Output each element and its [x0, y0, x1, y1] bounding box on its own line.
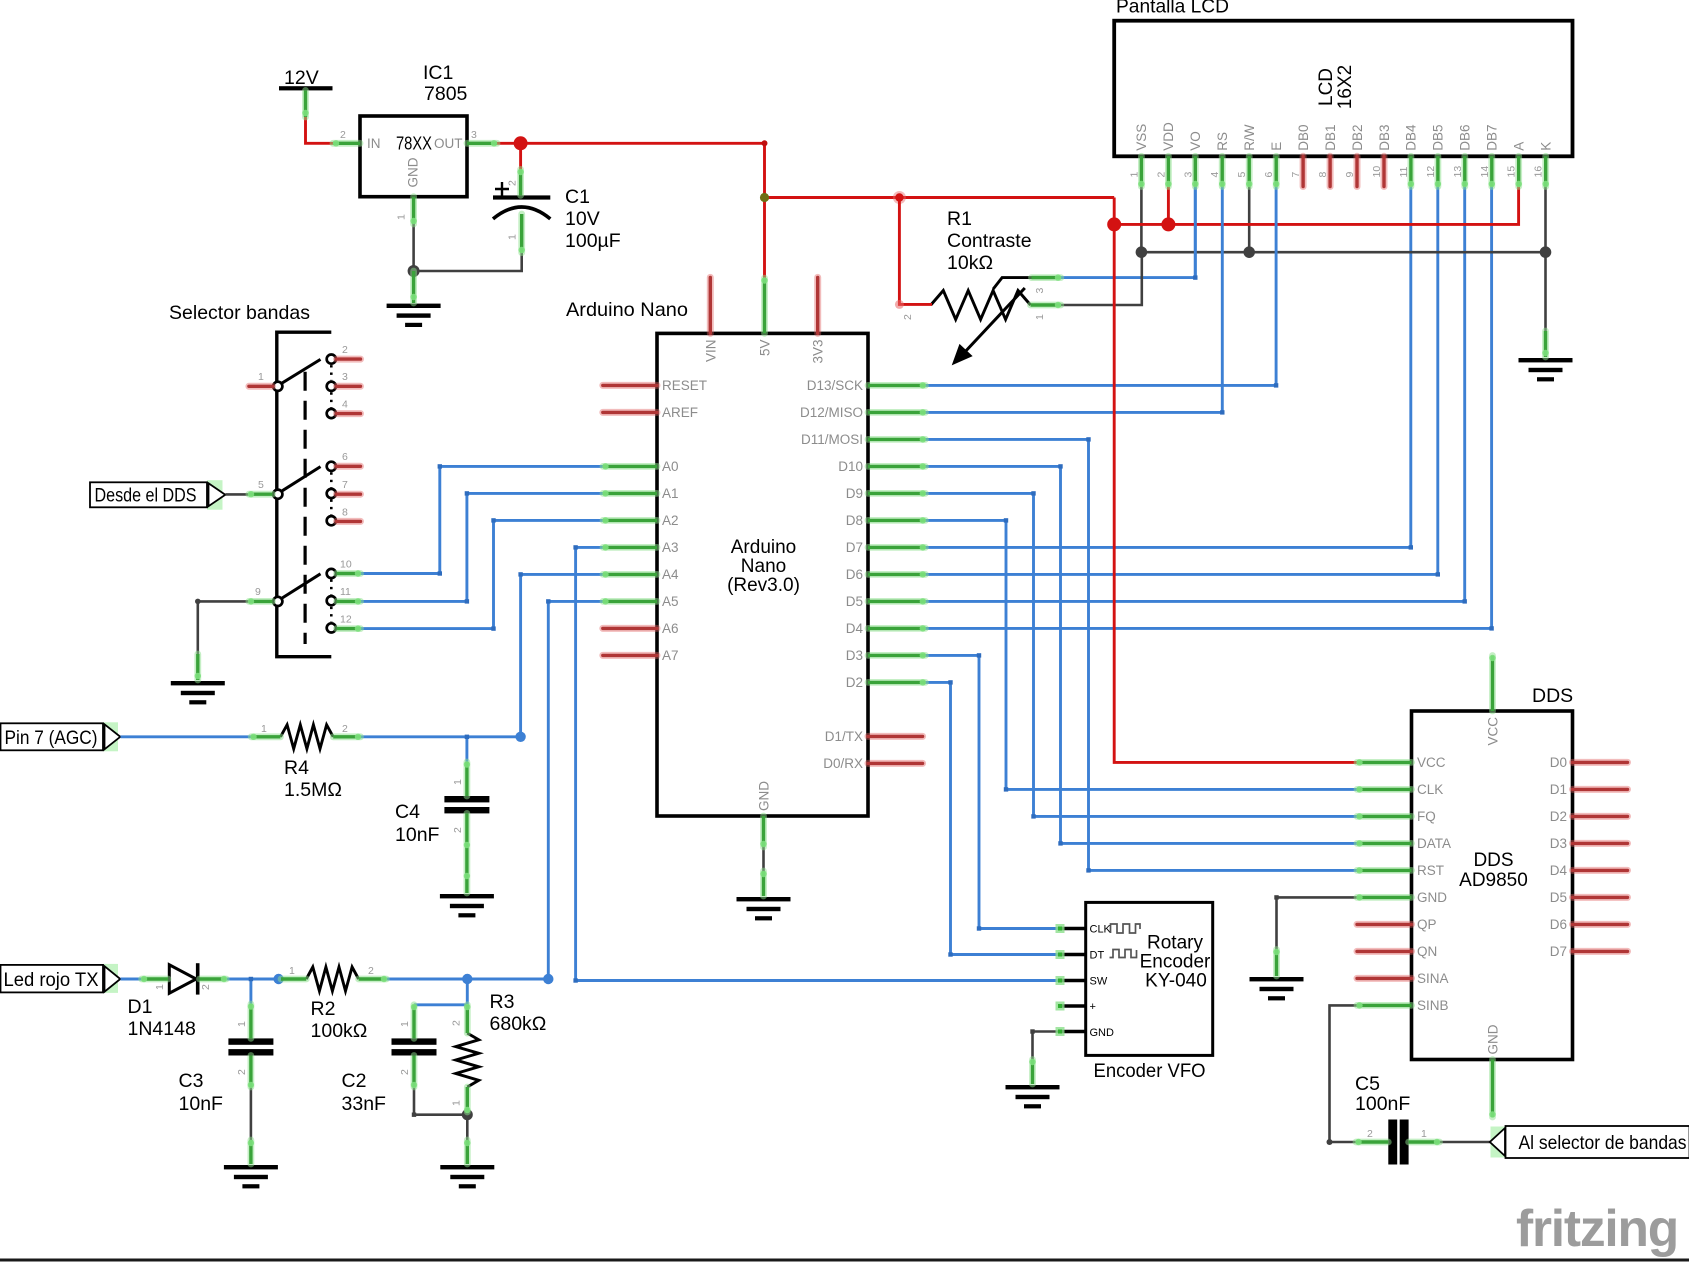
svg-text:K: K	[1539, 142, 1554, 151]
io label Pin 7 (AGC)	[1, 722, 121, 751]
pin end markers	[141, 110, 1549, 1146]
svg-text:12: 12	[340, 614, 352, 626]
wire R4 to node A4	[361, 735, 521, 738]
svg-text:GND: GND	[757, 781, 772, 811]
svg-text:GND: GND	[1417, 890, 1447, 905]
wire 5V drop to Arduino 5V pin	[763, 198, 766, 279]
svg-text:R/W: R/W	[1242, 124, 1257, 151]
junction dot R4/C4/A4	[515, 732, 525, 742]
svg-text:2: 2	[236, 1069, 248, 1075]
svg-text:D1: D1	[1550, 782, 1567, 797]
svg-text:IC1: IC1	[423, 62, 453, 84]
svg-text:D1: D1	[128, 996, 153, 1018]
svg-text:DATA: DATA	[1417, 836, 1451, 851]
svg-text:D11/MOSI: D11/MOSI	[801, 432, 863, 447]
wire R1 pin1 to GND bus	[1061, 252, 1142, 305]
wire selector pin10 to A0	[361, 466, 604, 573]
junction GND node	[408, 265, 420, 277]
wire C5 to Al selector	[1440, 1141, 1493, 1144]
wire D8 to DDS CLK	[925, 520, 1357, 789]
svg-text:Selector bandas: Selector bandas	[169, 302, 310, 324]
svg-text:A2: A2	[662, 513, 679, 528]
svg-text:2: 2	[452, 827, 464, 833]
wire D5 to LCD DB6	[925, 186, 1464, 601]
regulator IC1 7805	[340, 62, 477, 220]
capacitor C3 10nF	[179, 1021, 274, 1115]
svg-text:2: 2	[399, 1069, 411, 1075]
ground C3	[224, 1165, 278, 1188]
svg-text:C5: C5	[1355, 1073, 1380, 1095]
ground R3/C2	[440, 1165, 494, 1188]
wire LCD K to ground	[1544, 186, 1547, 332]
wire LedTX to D1	[121, 978, 144, 981]
svg-text:RST: RST	[1417, 863, 1444, 878]
svg-text:D4: D4	[1550, 863, 1568, 878]
wire 5V bus LCD	[1114, 186, 1518, 224]
svg-text:QP: QP	[1417, 917, 1437, 932]
svg-text:Arduino Nano: Arduino Nano	[566, 299, 688, 321]
rotary switch Selector bandas	[169, 302, 352, 657]
wire IC1 OUT to 5V rail	[497, 143, 765, 197]
svg-text:GND: GND	[406, 157, 421, 187]
ground Arduino	[737, 897, 791, 920]
svg-text:R2: R2	[311, 998, 336, 1020]
svg-text:D8: D8	[846, 513, 863, 528]
junction R1 branch	[893, 191, 906, 204]
svg-text:D2: D2	[846, 675, 863, 690]
svg-text:DB6: DB6	[1458, 125, 1473, 151]
svg-text:D12/MISO: D12/MISO	[800, 405, 863, 420]
wire pole 9 to ground	[198, 601, 273, 655]
svg-text:3: 3	[1034, 288, 1046, 294]
svg-text:8: 8	[342, 507, 348, 519]
svg-text:Al selector de bandas: Al selector de bandas	[1519, 1132, 1687, 1154]
wire LCD R/W to GND bus	[1248, 186, 1251, 252]
display Pantalla LCD 16x2	[1114, 0, 1572, 178]
svg-text:100nF: 100nF	[1355, 1093, 1410, 1115]
svg-text:2: 2	[342, 344, 348, 356]
wire C1 to GND node	[414, 253, 522, 271]
wire selector pin11 to A1	[361, 493, 604, 601]
svg-text:Contraste: Contraste	[947, 230, 1032, 252]
rotary encoder KY-040	[1059, 902, 1213, 1082]
wire LCD VSS to GND bus	[1140, 186, 1143, 252]
svg-text:DT: DT	[1090, 950, 1105, 962]
wire LCD E down	[1275, 186, 1278, 385]
frame bottom edge	[0, 1259, 1689, 1262]
wire node down to R3/C2	[414, 979, 467, 1005]
wire down to C3	[249, 979, 252, 1005]
svg-text:10V: 10V	[565, 208, 600, 230]
svg-text:D5: D5	[846, 594, 863, 609]
wire D2 to encoder DT	[925, 682, 1059, 954]
svg-text:1: 1	[399, 1021, 411, 1027]
svg-text:3: 3	[342, 371, 348, 383]
capacitor C2 33nF	[342, 1021, 437, 1115]
svg-text:SW: SW	[1090, 976, 1108, 988]
svg-text:DDS: DDS	[1473, 850, 1513, 871]
io label Al selector de bandas	[1490, 1126, 1689, 1158]
svg-text:33nF: 33nF	[342, 1093, 387, 1115]
svg-text:VDD: VDD	[1161, 122, 1176, 151]
ground C4	[440, 894, 494, 917]
wire DDS GND to ground	[1277, 897, 1358, 950]
svg-text:D3: D3	[846, 648, 863, 663]
junction dots GND bus	[1136, 246, 1148, 258]
svg-text:AD9850: AD9850	[1459, 870, 1528, 891]
wire node to A4	[521, 574, 603, 736]
svg-text:DB1: DB1	[1323, 125, 1338, 151]
wire LCD VO down	[1194, 186, 1197, 278]
svg-text:10: 10	[340, 559, 352, 571]
wire encoder GND to ground	[1033, 1032, 1060, 1061]
svg-text:100µF: 100µF	[565, 230, 621, 252]
wire D12/MISO to LCD RS	[925, 411, 1222, 414]
svg-text:1N4148: 1N4148	[128, 1018, 196, 1040]
svg-text:DB5: DB5	[1431, 125, 1446, 151]
svg-text:3: 3	[471, 129, 477, 141]
svg-text:2: 2	[200, 984, 212, 990]
wire C2 to R3 bottom	[414, 1087, 464, 1115]
junction 5V node	[760, 193, 769, 202]
svg-text:C1: C1	[565, 186, 590, 208]
svg-text:6: 6	[342, 451, 348, 463]
wire C1 pin2	[519, 143, 522, 170]
wire Desde el DDS to pole 5	[226, 493, 251, 496]
svg-text:A3: A3	[662, 540, 679, 555]
ground DDS	[1250, 977, 1304, 1000]
svg-text:DB4: DB4	[1404, 124, 1419, 151]
svg-text:2: 2	[342, 723, 348, 735]
svg-text:D5: D5	[1550, 890, 1567, 905]
wire GND bus	[1141, 251, 1545, 254]
svg-text:11: 11	[340, 586, 351, 598]
svg-text:LCD: LCD	[1316, 68, 1337, 106]
svg-text:C4: C4	[395, 801, 420, 823]
svg-text:3V3: 3V3	[811, 340, 826, 364]
svg-text:GND: GND	[1486, 1024, 1501, 1054]
svg-text:D6: D6	[846, 567, 863, 582]
svg-text:D9: D9	[846, 486, 863, 501]
svg-text:IN: IN	[367, 136, 381, 151]
svg-text:QN: QN	[1417, 944, 1437, 959]
wire node to A5	[548, 601, 603, 979]
svg-text:5: 5	[258, 479, 264, 491]
svg-text:KY-040: KY-040	[1145, 971, 1207, 992]
svg-text:10nF: 10nF	[395, 824, 440, 846]
wire D1 to R2 node	[226, 978, 281, 981]
svg-text:C2: C2	[342, 1070, 367, 1092]
wire D13/SCK to LCD E	[925, 384, 1276, 387]
svg-text:AREF: AREF	[662, 405, 698, 420]
wire D3 to encoder CLK	[925, 655, 1059, 928]
svg-text:D10: D10	[838, 459, 863, 474]
svg-text:Desde el DDS: Desde el DDS	[95, 485, 197, 507]
svg-text:4: 4	[342, 399, 348, 411]
wire C3 to ground	[250, 1087, 253, 1141]
svg-text:1: 1	[289, 965, 295, 977]
wire D11/MOSI to DDS RST	[925, 439, 1357, 870]
junction dot at IC1 output	[514, 136, 528, 150]
svg-text:Pin 7 (AGC): Pin 7 (AGC)	[5, 727, 98, 749]
junction dots 5V bus	[1107, 217, 1121, 231]
svg-text:9: 9	[255, 586, 261, 598]
wire A3 to encoder SW	[576, 547, 1059, 980]
microcontroller Arduino Nano U1	[566, 299, 868, 816]
capacitor C4 10nF	[395, 779, 489, 846]
wire LCD VDD to 5V bus	[1167, 186, 1170, 224]
svg-text:+: +	[1090, 1001, 1096, 1013]
svg-text:Led rojo TX: Led rojo TX	[4, 969, 99, 991]
module DDS AD9850	[1412, 685, 1574, 1060]
resistor R3 680k	[451, 991, 547, 1106]
wire D9 to DDS FQ	[925, 493, 1357, 816]
svg-text:D6: D6	[1550, 917, 1567, 932]
wire 5V column down to DDS VCC	[1114, 198, 1357, 763]
svg-text:fritzing: fritzing	[1516, 1199, 1678, 1257]
pin leads green	[142, 90, 1546, 1164]
svg-text:1: 1	[154, 984, 166, 990]
svg-text:1: 1	[1034, 314, 1046, 320]
svg-text:A: A	[1512, 142, 1527, 151]
svg-text:VCC: VCC	[1417, 755, 1446, 770]
wire R1 pin3 to LCD VO	[1061, 186, 1196, 278]
svg-text:2: 2	[902, 314, 914, 320]
svg-text:1.5MΩ: 1.5MΩ	[284, 779, 342, 801]
svg-text:1: 1	[258, 371, 264, 383]
svg-text:10kΩ: 10kΩ	[947, 252, 993, 274]
svg-text:Encoder VFO: Encoder VFO	[1094, 1060, 1206, 1082]
wire selector pin12 to A2	[361, 520, 604, 628]
svg-text:Nano: Nano	[741, 556, 786, 577]
svg-text:2: 2	[340, 129, 346, 141]
svg-text:GND: GND	[1090, 1027, 1115, 1039]
svg-text:VIN: VIN	[703, 340, 718, 363]
svg-text:1: 1	[236, 1021, 248, 1027]
svg-text:RS: RS	[1215, 132, 1230, 151]
wire R2 to R3 node and A5	[386, 978, 548, 981]
svg-text:OUT: OUT	[434, 136, 463, 151]
svg-text:C3: C3	[179, 1070, 204, 1092]
svg-text:VCC: VCC	[1486, 717, 1501, 746]
diode D1 1N4148	[128, 963, 213, 1040]
power symbol 12V	[279, 67, 333, 90]
svg-text:12V: 12V	[284, 67, 319, 89]
svg-text:2: 2	[451, 1020, 463, 1026]
svg-text:DB2: DB2	[1350, 125, 1365, 151]
svg-text:DB3: DB3	[1377, 125, 1392, 151]
wire D7 to LCD DB4	[925, 186, 1410, 547]
capacitor C5 100nF	[1355, 1073, 1427, 1165]
svg-text:2: 2	[507, 180, 519, 186]
svg-text:2: 2	[368, 965, 374, 977]
svg-text:1: 1	[1421, 1128, 1427, 1140]
svg-text:Rotary: Rotary	[1147, 933, 1203, 954]
wire IC1 GND down	[412, 222, 415, 271]
svg-text:SINA: SINA	[1417, 971, 1449, 986]
svg-text:D2: D2	[1550, 809, 1567, 824]
svg-text:DDS: DDS	[1532, 685, 1573, 707]
svg-text:SINB: SINB	[1417, 998, 1449, 1013]
ground encoder	[1006, 1085, 1060, 1108]
svg-text:CLK: CLK	[1090, 924, 1112, 936]
svg-text:R4: R4	[284, 757, 309, 779]
svg-text:R1: R1	[947, 208, 972, 230]
svg-text:D7: D7	[846, 540, 863, 555]
svg-text:D13/SCK: D13/SCK	[807, 378, 863, 393]
svg-text:Pantalla LCD: Pantalla LCD	[1116, 0, 1229, 18]
junction dots R2/R3 node	[462, 974, 472, 984]
svg-text:D7: D7	[1550, 944, 1567, 959]
svg-text:A6: A6	[662, 621, 679, 636]
svg-text:RESET: RESET	[662, 378, 707, 393]
resistor R2 100k	[289, 965, 374, 1042]
wire D10 to DDS DATA	[925, 466, 1357, 843]
ground IC1/C1	[387, 304, 441, 327]
ground LCD K	[1519, 358, 1573, 381]
wire D6 to LCD DB5	[925, 186, 1437, 574]
svg-text:Encoder: Encoder	[1140, 952, 1211, 973]
io label Led rojo TX	[1, 964, 121, 993]
svg-text:Arduino: Arduino	[731, 537, 797, 558]
svg-text:D0: D0	[1550, 755, 1567, 770]
wire R3 bottom to ground	[466, 1112, 469, 1141]
resistor R4 1.5M	[261, 723, 348, 801]
svg-text:E: E	[1269, 142, 1284, 151]
svg-text:A7: A7	[662, 648, 679, 663]
wire down to C4	[465, 737, 468, 763]
svg-text:100kΩ: 100kΩ	[311, 1020, 368, 1042]
svg-text:A4: A4	[662, 567, 679, 582]
io label Desde el DDS	[90, 480, 225, 510]
svg-text:D0/RX: D0/RX	[823, 756, 863, 771]
svg-text:R3: R3	[490, 991, 515, 1013]
wire D4 to LCD DB7	[925, 186, 1491, 628]
svg-text:DB7: DB7	[1485, 125, 1500, 151]
wire Arduino GND to ground	[762, 845, 765, 872]
wire 5V rail to LCD column	[765, 196, 1115, 199]
pin leads red (unconnected)	[249, 156, 1628, 978]
wire 12V to IC1 IN	[306, 115, 335, 143]
wire Pin7 to R4	[121, 735, 253, 738]
svg-text:1: 1	[261, 723, 267, 735]
svg-text:D4: D4	[846, 621, 864, 636]
capacitor C1	[493, 180, 621, 252]
svg-text:16X2: 16X2	[1335, 65, 1356, 109]
potentiometer R1 Contraste 10k	[902, 208, 1046, 364]
ground selector	[171, 681, 225, 704]
svg-text:CLK: CLK	[1417, 782, 1443, 797]
svg-text:10nF: 10nF	[179, 1093, 224, 1115]
svg-text:D3: D3	[1550, 836, 1567, 851]
svg-text:78XX: 78XX	[396, 134, 432, 154]
svg-text:(Rev3.0): (Rev3.0)	[727, 575, 800, 596]
svg-text:FQ: FQ	[1417, 809, 1436, 824]
svg-text:A5: A5	[662, 594, 679, 609]
svg-text:1: 1	[451, 1100, 463, 1106]
svg-text:5V: 5V	[758, 340, 773, 357]
svg-text:680kΩ: 680kΩ	[490, 1013, 547, 1035]
svg-text:1: 1	[452, 779, 464, 785]
svg-text:7: 7	[342, 479, 348, 491]
svg-text:7805: 7805	[424, 83, 468, 105]
wire LCD RS down	[1221, 186, 1224, 412]
wire DDS SINB to C5	[1330, 1005, 1358, 1142]
svg-text:VO: VO	[1188, 131, 1203, 151]
wire 5V to R1 pin2	[899, 198, 932, 305]
svg-text:DB0: DB0	[1296, 125, 1311, 151]
svg-text:A1: A1	[662, 486, 679, 501]
svg-text:1: 1	[396, 214, 408, 220]
svg-text:VSS: VSS	[1134, 124, 1149, 151]
junction dot R3/C2 ground node	[462, 1109, 473, 1120]
svg-text:A0: A0	[662, 459, 679, 474]
svg-text:2: 2	[1367, 1128, 1373, 1140]
svg-text:1: 1	[507, 234, 519, 240]
svg-text:D1/TX: D1/TX	[825, 729, 863, 744]
